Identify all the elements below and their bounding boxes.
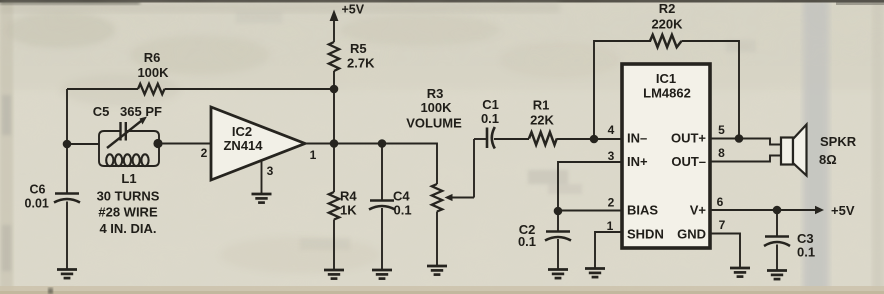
svg-text:6: 6 (717, 195, 724, 209)
node C4 (378, 139, 387, 148)
svg-text:30 TURNS: 30 TURNS (97, 189, 160, 204)
node BIAS/C2 (554, 207, 563, 216)
svg-text:2: 2 (608, 196, 615, 210)
svg-text:8: 8 (718, 146, 725, 160)
svg-text:100K: 100K (420, 100, 452, 115)
svg-text:R6: R6 (144, 50, 161, 65)
svg-text:R5: R5 (350, 41, 367, 56)
wire R1 to IC1 pin 4 (557, 138, 622, 140)
capacitor C4 (369, 144, 395, 270)
svg-text:4 IN. DIA.: 4 IN. DIA. (99, 221, 156, 236)
resistor R2 (650, 35, 682, 47)
svg-text:ZN414: ZN414 (223, 138, 263, 153)
wire output to pot (382, 144, 437, 185)
svg-text:L1: L1 (121, 171, 136, 186)
wire tank to IC2 pin 2 (159, 143, 211, 145)
wire wiper to C1 (474, 138, 486, 140)
wire C1 to R1 (494, 138, 529, 140)
wire IC2 pin 3 (261, 160, 263, 194)
svg-text:GND: GND (677, 227, 706, 242)
capacitor C6 (54, 194, 80, 270)
svg-text:IN–: IN– (627, 131, 647, 146)
node OUT+/R2 (735, 134, 744, 143)
svg-text:C6: C6 (30, 183, 46, 197)
wire IC1 pin 6 V+ (710, 209, 815, 211)
node tank output (153, 139, 162, 148)
ground R4 (324, 270, 344, 279)
wire output line (334, 143, 382, 145)
wire R6 left lead (67, 88, 138, 90)
svg-text:OUT–: OUT– (671, 154, 706, 169)
svg-text:+5V: +5V (342, 3, 365, 17)
svg-text:VOLUME: VOLUME (406, 116, 462, 131)
svg-text:LM4862: LM4862 (643, 86, 691, 101)
wire R2 left leg (594, 41, 651, 139)
svg-text:2: 2 (201, 146, 208, 160)
wire IC1 pin 8 OUT- (710, 156, 781, 162)
wire R2 right leg (682, 41, 740, 139)
svg-text:R4: R4 (340, 189, 357, 204)
speaker SPKR (781, 125, 807, 176)
svg-text:SHDN: SHDN (627, 227, 664, 242)
svg-text:1: 1 (607, 219, 614, 233)
svg-text:R1: R1 (533, 98, 550, 113)
ground pin 7 (730, 268, 750, 277)
ground C3 (767, 271, 787, 280)
resistor R1 (529, 132, 557, 145)
LC tank frame (99, 131, 159, 166)
resistor R4 (329, 144, 339, 270)
svg-text:22K: 22K (530, 113, 554, 128)
wire R5 to node (333, 71, 335, 89)
resistor R6 (138, 84, 165, 94)
svg-text:#28 WIRE: #28 WIRE (98, 205, 158, 220)
svg-text:+5V: +5V (831, 203, 855, 218)
svg-text:0.1: 0.1 (518, 234, 536, 249)
svg-text:220K: 220K (651, 17, 683, 32)
svg-text:0.01: 0.01 (25, 197, 49, 211)
svg-text:IN+: IN+ (627, 154, 648, 169)
wire IC1 pin 3 loop (558, 162, 622, 211)
potentiometer R3 (432, 139, 474, 266)
svg-text:OUT+: OUT+ (671, 131, 706, 146)
svg-text:R3: R3 (427, 86, 444, 101)
wire IC2 pin 1 output (305, 143, 334, 145)
svg-text:C5: C5 (93, 104, 110, 119)
wire IC1 pin 5 OUT+ (710, 139, 781, 145)
+5V power arrow right (815, 206, 824, 214)
capacitor C5 variable (107, 117, 147, 149)
capacitor C3 (764, 210, 790, 270)
ground C2 (548, 270, 568, 279)
svg-text:0.1: 0.1 (394, 203, 412, 218)
svg-text:100K: 100K (137, 65, 169, 80)
svg-text:3: 3 (608, 149, 615, 163)
wire node to output line (333, 89, 335, 144)
ground C6 (57, 270, 77, 279)
node R6/R5 junction (330, 85, 339, 94)
wire node to tank (67, 143, 99, 145)
svg-text:1K: 1K (340, 203, 357, 218)
inductor L1 (106, 154, 148, 166)
svg-text:0.1: 0.1 (797, 245, 815, 260)
+5V power arrow top (330, 10, 339, 43)
svg-text:IC2: IC2 (232, 124, 252, 139)
svg-text:3: 3 (267, 164, 274, 178)
ground R3 (427, 266, 447, 275)
svg-text:5: 5 (718, 123, 725, 137)
svg-text:C4: C4 (393, 189, 410, 204)
svg-text:8Ω: 8Ω (819, 152, 837, 167)
wire left vertical (66, 89, 68, 193)
ground C4 (372, 270, 392, 279)
IC U1 LM4862 box (622, 64, 710, 248)
wire IC1 pin 1 SHDN (595, 232, 622, 268)
node V+/C3 (773, 206, 782, 215)
svg-text:BIAS: BIAS (627, 203, 658, 218)
svg-text:1: 1 (310, 148, 317, 162)
node output/R4 (330, 139, 339, 148)
ground IC2 pin 3 (252, 194, 272, 203)
node R2 feedback (590, 135, 599, 144)
capacitor C2 (545, 211, 571, 269)
capacitor C1 (487, 127, 495, 149)
svg-text:365 PF: 365 PF (120, 104, 162, 119)
ground SHDN (585, 269, 605, 278)
svg-text:0.1: 0.1 (481, 111, 499, 126)
svg-text:4: 4 (608, 123, 615, 137)
wire IC1 pin 7 GND (710, 234, 740, 268)
wire R6 right lead (165, 88, 335, 90)
svg-text:7: 7 (719, 218, 726, 232)
svg-text:R2: R2 (659, 1, 676, 16)
svg-text:IC1: IC1 (656, 71, 676, 86)
svg-text:2.7K: 2.7K (347, 56, 375, 71)
op-amp IC2 ZN414 (211, 107, 305, 180)
node antenna input (63, 140, 72, 149)
svg-text:V+: V+ (690, 203, 707, 218)
resistor R5 (329, 42, 339, 71)
wire IC1 pin 2 BIAS (558, 210, 622, 212)
svg-text:C1: C1 (482, 97, 499, 112)
svg-text:SPKR: SPKR (820, 134, 857, 149)
